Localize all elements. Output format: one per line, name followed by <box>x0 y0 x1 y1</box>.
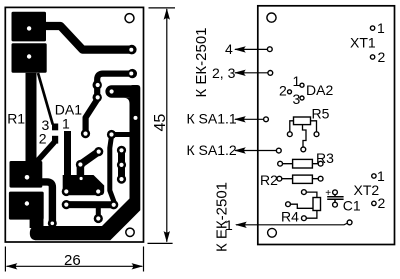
extension line top for 45 <box>149 7 176 9</box>
pad blob BR <box>94 187 103 196</box>
svg-text:К SA1.2: К SA1.2 <box>187 142 237 158</box>
fillet feed-to-bar <box>124 98 130 104</box>
pad R2 left <box>277 176 282 181</box>
svg-text:R2: R2 <box>260 172 278 188</box>
pad 2,3 <box>268 71 273 76</box>
pad DA2.2 <box>288 90 292 94</box>
pad DA2.1 <box>300 83 304 87</box>
svg-text:26: 26 <box>64 252 81 269</box>
pad rectangle top-left 1 <box>12 12 47 42</box>
wire rect4 bridge to ground bar <box>30 219 44 229</box>
3-pad strip <box>118 150 125 179</box>
pad P3 <box>93 80 102 89</box>
pad P4 <box>93 93 102 102</box>
board outline left panel <box>5 7 143 242</box>
pad rectangle bottom-left 4 <box>9 192 44 220</box>
pad R5 middle <box>301 147 306 152</box>
wire pin2 to ground rect <box>36 143 54 163</box>
pad R4 top <box>302 190 307 195</box>
svg-text:R4: R4 <box>281 209 299 225</box>
pad R2 right <box>318 176 323 181</box>
dimension line 45 <box>166 9 168 242</box>
pad XT1.2 <box>370 55 374 59</box>
svg-text:К ЕК-2501: К ЕК-2501 <box>193 27 210 97</box>
pad blob BL <box>62 187 71 196</box>
extension line bottom for 45 <box>148 242 173 244</box>
blob pad feed to bar <box>112 85 130 97</box>
pad XT2.2 <box>372 201 376 205</box>
ground L-bar trace right+bottom <box>30 85 141 240</box>
extension line left for 26 <box>4 247 6 272</box>
pad R5 right <box>314 132 319 137</box>
svg-text:1: 1 <box>225 217 233 233</box>
pad rectangle top-left 2 <box>12 43 47 73</box>
pad B stub to bar <box>112 132 131 137</box>
svg-text:2: 2 <box>378 49 386 65</box>
svg-text:1: 1 <box>62 115 70 131</box>
pad P5 <box>48 219 57 228</box>
pad P2 <box>128 69 137 78</box>
pad B <box>107 130 116 139</box>
pad blob <box>107 87 116 96</box>
DA1 pin 1 pad bar <box>64 131 71 176</box>
resistor R1 trace bar <box>26 73 37 163</box>
white holes <box>25 26 138 225</box>
pad XT1.1 <box>370 26 374 30</box>
dumbbell E-F diagonal <box>80 152 98 176</box>
svg-text:1: 1 <box>377 20 385 36</box>
pad SA1.2 <box>276 148 281 153</box>
svg-text:ХТ2: ХТ2 <box>354 182 380 198</box>
pad R4 bottom <box>302 216 307 221</box>
wire trace1 from rect1 to pad <box>46 26 132 50</box>
pad 1 wire end <box>347 220 352 225</box>
svg-text:4: 4 <box>225 41 233 57</box>
pad 4 <box>267 47 272 52</box>
svg-text:2: 2 <box>378 195 386 211</box>
arrowhead 26 left <box>6 263 18 269</box>
DA1 pin 3 pad <box>52 124 58 131</box>
board outline right panel <box>258 6 395 245</box>
wire stub from rect3 down <box>40 182 52 223</box>
pad P1 <box>127 45 137 55</box>
svg-text:DA2: DA2 <box>306 82 333 98</box>
pad SA1.1 <box>264 117 269 122</box>
svg-text:2, 3: 2, 3 <box>212 65 236 81</box>
arrowhead 26 right <box>132 263 144 269</box>
svg-text:C1: C1 <box>343 198 361 214</box>
svg-text:R5: R5 <box>312 105 330 121</box>
wire thin diagonal DA1 pin3 <box>38 73 53 125</box>
mounting hole top-left right panel <box>267 13 276 22</box>
svg-text:R1: R1 <box>7 110 25 126</box>
pad R4 left <box>286 202 291 207</box>
svg-text:2: 2 <box>39 130 47 146</box>
arrowhead 45 bottom <box>164 231 170 243</box>
dimension line 26 <box>7 265 143 267</box>
arrowhead 45 top <box>164 8 170 19</box>
wire B down to dumbbell pad <box>110 136 114 205</box>
stub down from dumbbell <box>96 205 101 219</box>
pad R3 right <box>318 161 323 166</box>
svg-text:ХТ1: ХТ1 <box>350 35 376 51</box>
pad rectangle mid-left 3 <box>10 161 43 188</box>
svg-text:К SA1.1: К SA1.1 <box>187 111 237 127</box>
pad F <box>76 160 85 169</box>
wire trace2 chain <box>86 74 132 134</box>
svg-text:3: 3 <box>293 91 301 107</box>
pad A <box>81 129 90 138</box>
pad XT2.1 <box>372 174 376 178</box>
svg-text:2: 2 <box>279 82 287 98</box>
pad C1 top <box>333 190 338 195</box>
pad DA2.3 <box>300 96 304 100</box>
mounting hole top-right left panel <box>125 14 134 23</box>
pad E <box>94 147 103 156</box>
dumbbell horizontal <box>66 201 113 208</box>
mounting hole bottom-left right panel <box>268 228 277 237</box>
pad R3 left <box>278 161 283 166</box>
blob polygon center <box>63 175 104 195</box>
pad C1 bottom <box>333 202 338 207</box>
pad R5 left <box>287 132 292 137</box>
svg-text:1: 1 <box>293 73 301 89</box>
svg-text:45: 45 <box>152 114 169 132</box>
DA1 pin 2 pad <box>52 136 58 144</box>
mounting hole bottom-right left panel <box>126 228 134 236</box>
extension line right for 26 <box>143 247 145 272</box>
